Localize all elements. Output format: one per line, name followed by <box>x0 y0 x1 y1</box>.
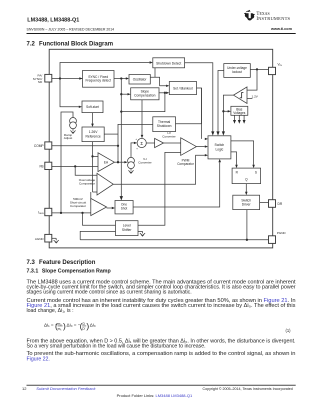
wire switch logic to RS latch S <box>231 141 255 168</box>
svg-text:Set / Blankout: Set / Blankout <box>173 86 193 90</box>
wire SYNC detect to oscillator <box>114 77 129 79</box>
wire UVLO to switch logic <box>216 71 223 136</box>
PWM comparator <box>177 138 196 166</box>
wire clock vertical to one shot <box>120 79 166 201</box>
wire level shifter to PWM comparator <box>138 152 181 225</box>
wire I-V converter to PWM comparator <box>164 142 181 144</box>
wire slope compensation to set blankout <box>159 92 169 94</box>
wire switch logic to RS latch R <box>231 152 238 168</box>
pin DR <box>269 200 283 208</box>
one shot block <box>115 201 133 214</box>
svg-text:lockout: lockout <box>232 70 242 74</box>
SYNC fixed frequency detect block <box>83 71 115 88</box>
svg-text:Oscillator: Oscillator <box>133 78 148 82</box>
wire PWM comparator to switch logic <box>196 145 208 147</box>
svg-text:S: S <box>255 170 257 174</box>
svg-text:Logic: Logic <box>215 147 223 151</box>
wire ramp adjust to ISEN line <box>61 112 73 213</box>
wire FA/SYNC/SD to soft-start <box>60 79 82 109</box>
svg-text:FB: FB <box>39 164 43 168</box>
pin VIN <box>269 63 283 75</box>
wire reference to COMP net <box>104 133 118 135</box>
svg-text:Converter: Converter <box>162 134 175 138</box>
svg-text:Δi₀: Δi₀ <box>90 322 96 327</box>
svg-text:PGND: PGND <box>277 231 287 235</box>
wire switch driver to DR pin <box>260 201 269 203</box>
svg-text:Driver: Driver <box>242 203 252 207</box>
svg-text:12: 12 <box>22 386 27 391</box>
UVLO comparator <box>234 87 248 104</box>
wire slope compensation to summer <box>141 100 144 139</box>
short-circuit comparator <box>70 197 107 216</box>
svg-text:Reference: Reference <box>85 134 100 138</box>
I-V converter amplifier <box>155 131 176 148</box>
shutdown detect block <box>153 58 185 68</box>
AGND ground <box>52 238 59 243</box>
1.26V reference block <box>82 127 104 142</box>
svg-text:Comparator: Comparator <box>79 181 95 185</box>
thermal shutdown block <box>153 117 176 132</box>
wire set blankout to switch logic <box>197 88 202 124</box>
wire FA/SYNC/SD to Shutdown Detect <box>52 61 153 79</box>
oscillator block <box>129 75 150 85</box>
svg-text:(1): (1) <box>286 328 292 333</box>
wire V-I converter to summer <box>131 142 137 158</box>
under-voltage lockout block <box>224 64 251 78</box>
wire EA output to V-I converter <box>114 161 127 163</box>
svg-text:stages using current mode cont: stages using current mode control since … <box>27 290 192 296</box>
svg-text:LM3488, LM3488-Q1: LM3488, LM3488-Q1 <box>27 18 79 24</box>
paragraph 4 <box>27 351 296 362</box>
wire one shot to switch logic <box>133 159 221 207</box>
svg-text:www.ti.com: www.ti.com <box>270 27 293 31</box>
svg-text:AGND: AGND <box>35 237 45 241</box>
svg-text:SNVS090N – JULY 2005 – REVISED: SNVS090N – JULY 2005 – REVISED DECEMBER … <box>27 27 115 31</box>
wire COMP to EA output <box>52 145 119 147</box>
footer <box>22 385 296 398</box>
wire UVLO comparator to switch logic <box>222 95 234 135</box>
svg-text:Converter: Converter <box>138 160 151 164</box>
svg-text:Copyright © 2005–2014, Texas I: Copyright © 2005–2014, Texas Instruments… <box>203 387 293 391</box>
ramp adjust current source <box>64 118 77 141</box>
wire FB to overvoltage comparator <box>75 166 97 175</box>
svg-text:D′: D′ <box>82 327 85 331</box>
bias output arrows <box>233 115 246 124</box>
switch driver block <box>233 195 260 209</box>
wire RS latch to switch driver <box>245 184 248 196</box>
svg-text:So a very small perturbation i: So a very small perturbation in the load… <box>27 343 206 349</box>
level shifter block <box>116 221 139 236</box>
wire overvoltage comparator to switch logic <box>113 154 208 184</box>
wire soft-start to reference <box>91 113 94 127</box>
IC boundary <box>49 49 273 248</box>
bias voltages block <box>231 106 248 115</box>
svg-text:Compensation: Compensation <box>134 93 155 97</box>
svg-text:Product Folder Links: LM3488: Product Folder Links: LM3488 LM3488-Q1 <box>117 393 193 398</box>
pin COMP <box>34 142 52 149</box>
svg-text:Shot: Shot <box>121 206 128 210</box>
svg-text:Voltages: Voltages <box>233 111 245 115</box>
pin FA/SYNC/SD <box>33 73 52 84</box>
wire FB to EA <box>52 165 98 167</box>
wire UVLO to VIN pin <box>250 68 268 70</box>
svg-text:Submit Documentation Feedback: Submit Documentation Feedback <box>36 386 96 391</box>
svg-text:COMP: COMP <box>34 144 44 148</box>
overvoltage comparator <box>79 173 114 195</box>
svg-text:m₂: m₂ <box>58 322 63 326</box>
svg-text:7.2Functional Block Diagram: 7.2Functional Block Diagram <box>27 42 114 48</box>
wire reference to EA and comparators <box>91 142 98 203</box>
svg-text:SD: SD <box>38 80 43 84</box>
svg-text:Shifter: Shifter <box>122 228 132 232</box>
wire summer to I-V converter <box>146 142 154 144</box>
svg-text:Δi₀ = −: Δi₀ = − <box>67 322 81 327</box>
svg-text:Adjust: Adjust <box>64 136 73 140</box>
flip-flop RS latch <box>232 168 261 184</box>
level shifter ground <box>138 231 145 236</box>
wire shutdown detect to switch logic <box>185 63 215 136</box>
svg-text:1.2V: 1.2V <box>252 95 259 99</box>
paragraph 2 <box>27 298 296 314</box>
equation 1 <box>44 321 291 333</box>
summing node <box>135 138 146 150</box>
slope compensation block <box>131 88 159 100</box>
wire ISEN to short-circuit comparator <box>52 212 91 214</box>
switch logic block <box>208 136 231 159</box>
op-amp EA <box>98 153 114 172</box>
pin PGND <box>269 231 287 243</box>
soft-start block <box>82 101 103 113</box>
set blankout block <box>169 82 196 95</box>
wire ISEN to level shifter <box>83 213 116 225</box>
svg-text:Σ: Σ <box>140 141 143 146</box>
svg-text:Soft-start: Soft-start <box>86 105 99 109</box>
svg-text:Figure 22.: Figure 22. <box>27 356 50 362</box>
svg-text:Frequency detect: Frequency detect <box>85 79 111 83</box>
svg-text:load change, Δi₁, is :: load change, Δi₁, is : <box>27 308 74 314</box>
paragraph 3 <box>27 338 296 349</box>
svg-text:Shutdown Detect: Shutdown Detect <box>156 61 181 65</box>
pin ISEN <box>38 208 52 215</box>
paragraph 1 <box>27 279 297 295</box>
svg-text:DR: DR <box>278 202 283 206</box>
pin AGND <box>35 234 52 242</box>
TI logo <box>244 10 291 22</box>
header part title <box>27 18 296 34</box>
wire thermal shutdown to switch logic <box>176 88 209 140</box>
wire ground rail to PGND <box>80 210 268 241</box>
svg-text:Comparator: Comparator <box>177 162 194 166</box>
pin FB <box>39 162 51 169</box>
wire short-circuit comparator to one shot <box>107 207 115 209</box>
svg-text:To prevent the sub-harmonic os: To prevent the sub-harmonic oscillations… <box>27 351 296 357</box>
wire EA output up to thermal row <box>118 124 153 162</box>
V-I converter current source <box>128 157 152 173</box>
wire VIN to UVLO comparator input <box>247 69 257 90</box>
svg-text:Shutdown: Shutdown <box>157 124 172 128</box>
svg-text:Comparator: Comparator <box>70 204 86 208</box>
reference 1.2V stub <box>247 95 259 99</box>
wire oscillator to set blankout <box>150 68 169 87</box>
